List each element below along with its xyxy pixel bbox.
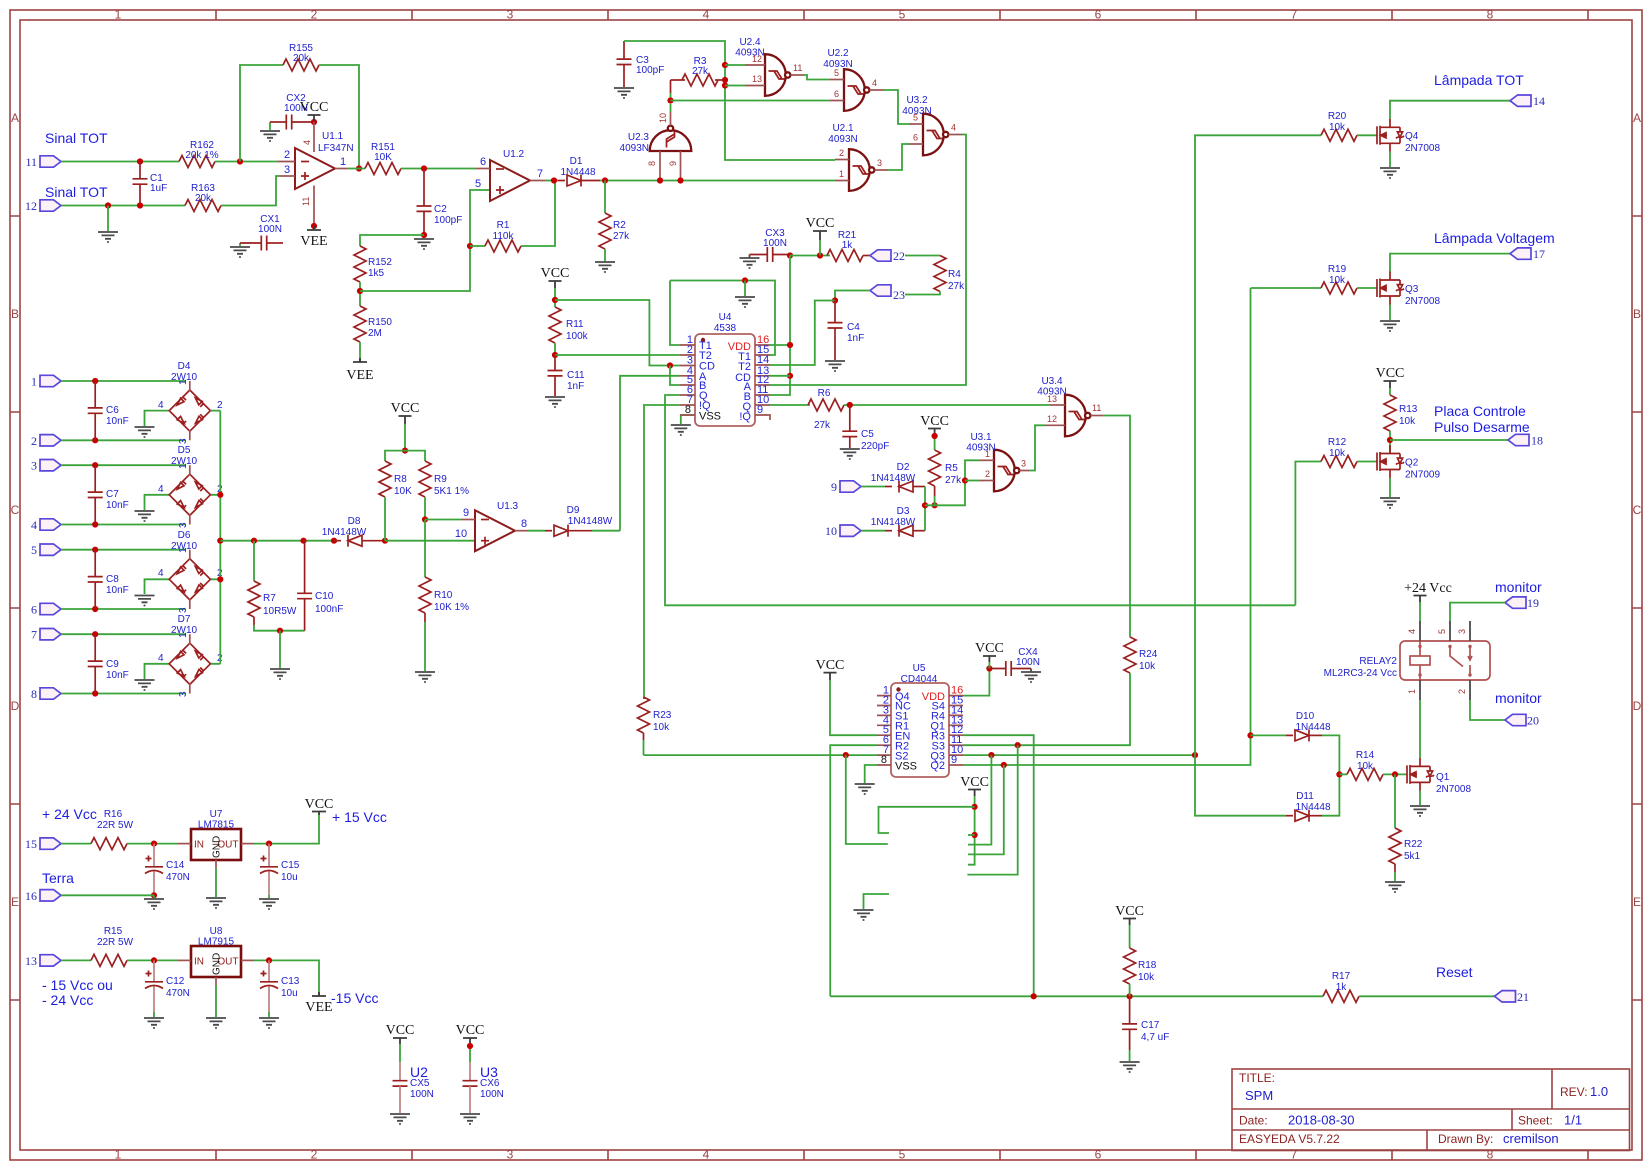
port 3 [31, 459, 61, 473]
capacitor C1 [133, 162, 168, 206]
svg-text:1N4148W: 1N4148W [568, 516, 613, 527]
svg-text:VEE: VEE [346, 368, 373, 383]
resistor R12 [1321, 437, 1357, 468]
wire port23 to C4 node [835, 291, 870, 301]
svg-text:1N4148W: 1N4148W [871, 517, 916, 528]
Q3 hook down [968, 755, 991, 845]
svg-text:4093N: 4093N [828, 134, 857, 145]
resistor R1 [470, 181, 555, 253]
svg-text:VCC: VCC [806, 216, 835, 231]
svg-text:C2: C2 [434, 204, 447, 215]
junction dot R11 top [552, 297, 558, 303]
VCC above R18 [1115, 904, 1144, 948]
resistor R152 [354, 246, 392, 282]
wire R17 to port21 [1359, 995, 1495, 997]
capacitor C11 [548, 355, 586, 396]
svg-text:5: 5 [475, 178, 481, 190]
wire pin13 tap [725, 85, 745, 87]
svg-text:18: 18 [1531, 434, 1543, 448]
svg-text:27k: 27k [692, 66, 709, 77]
svg-text:27k: 27k [945, 475, 962, 486]
svg-text:8: 8 [1487, 1148, 1494, 1162]
svg-text:3: 3 [178, 691, 189, 697]
svg-text:C11: C11 [567, 370, 585, 381]
svg-text:VCC: VCC [456, 1023, 485, 1038]
ground [98, 232, 118, 242]
svg-text:1: 1 [115, 8, 122, 22]
svg-text:U7: U7 [210, 809, 223, 820]
wire U3.1 out to U3.4 pin12 [1029, 425, 1045, 470]
wire R19 to Q3 gate [1357, 287, 1377, 289]
svg-text:C12: C12 [166, 976, 185, 987]
svg-text:U5: U5 [913, 663, 926, 674]
VCC at CX5 [386, 1023, 415, 1062]
U2.2 pin5 stub [830, 79, 844, 81]
svg-text:B: B [1633, 307, 1641, 321]
svg-text:LF347N: LF347N [318, 143, 354, 154]
svg-text:monitor: monitor [1495, 690, 1542, 706]
diode D3 1N4148W [871, 506, 925, 537]
wire port19 to relay pin5 [1450, 603, 1505, 621]
capacitor C6 [88, 381, 129, 440]
svg-text:10nF: 10nF [106, 416, 129, 427]
resistor R19 [1321, 264, 1357, 294]
svg-text:6: 6 [480, 156, 486, 168]
svg-text:C6: C6 [106, 405, 119, 416]
capacitor CX3 [750, 228, 791, 262]
U5 right pin numbers [951, 685, 963, 766]
svg-text:R16: R16 [104, 809, 123, 820]
svg-text:1nF: 1nF [567, 381, 584, 392]
U2.1 pin1 stub [835, 180, 849, 182]
svg-text:4: 4 [302, 140, 312, 145]
pin6 stub [476, 168, 490, 170]
svg-text:110k: 110k [493, 231, 515, 242]
svg-text:10u: 10u [281, 988, 298, 999]
wire port10 to D3 [861, 530, 885, 532]
U7 GND pin [215, 860, 217, 868]
port 16 [25, 889, 61, 903]
wire U8 OUT to VEE [254, 960, 319, 996]
U4 left pin numbers [685, 334, 693, 416]
svg-text:C5: C5 [861, 429, 874, 440]
svg-text:20k 1%: 20k 1% [185, 150, 218, 161]
resistor R17 [1323, 971, 1359, 1002]
resistor R8 [379, 461, 412, 541]
port 12 [25, 199, 61, 213]
resistor R9 [419, 461, 469, 520]
svg-text:C4: C4 [847, 322, 860, 333]
wire U5 R3 to reset rail [963, 735, 1034, 996]
relay pin5 [1449, 621, 1451, 641]
U7 IN pin stub [178, 843, 191, 845]
VCC for U5 EN [816, 658, 877, 735]
svg-text:11: 11 [25, 155, 37, 169]
wire U3.4 out down to R24 [1104, 416, 1130, 638]
svg-text:100N: 100N [258, 224, 282, 235]
svg-text:9: 9 [757, 404, 763, 416]
ground below C17 [1120, 1062, 1140, 1072]
svg-text:13: 13 [1047, 394, 1057, 404]
bridge D5 [158, 445, 223, 528]
wire R13 node to port18 [1390, 439, 1508, 441]
resistor R6 [808, 388, 844, 431]
svg-text:27k: 27k [814, 420, 831, 431]
svg-text:A: A [1633, 111, 1641, 125]
hook from VCC chain [879, 807, 975, 833]
svg-text:5: 5 [899, 1148, 906, 1162]
svg-text:2: 2 [311, 8, 318, 22]
U2.3 pin8 stub [659, 151, 661, 181]
VCC above R8/R9 [391, 401, 420, 451]
U5 left pin names [895, 691, 917, 773]
regulator U7 LM7815 [191, 809, 241, 860]
port 9 [831, 480, 861, 494]
feedback wire to R155 [240, 65, 283, 162]
resistor R3 [671, 56, 726, 86]
ground for CX2 [269, 122, 271, 130]
svg-text:14: 14 [1533, 94, 1545, 108]
svg-text:27k: 27k [948, 281, 965, 292]
svg-text:D5: D5 [178, 445, 191, 456]
svg-text:4,7 uF: 4,7 uF [1141, 1032, 1169, 1043]
svg-text:C14: C14 [166, 860, 185, 871]
svg-text:3: 3 [31, 459, 37, 473]
U3.2 pin5 stub [909, 123, 923, 125]
svg-text:17: 17 [1533, 247, 1545, 261]
svg-text:7: 7 [537, 168, 543, 180]
svg-text:4093N: 4093N [966, 443, 995, 454]
transistor Q1 2N7008 [1407, 758, 1471, 795]
svg-text:D9: D9 [567, 505, 580, 516]
svg-text:1k5: 1k5 [368, 268, 385, 279]
svg-text:15: 15 [25, 837, 37, 851]
U5 right pin stubs [949, 696, 963, 765]
junction dot R152/R150 [357, 288, 363, 294]
svg-text:1: 1 [115, 1148, 122, 1162]
svg-text:E: E [1633, 895, 1641, 909]
wire R23 to U5 S2 [644, 754, 878, 756]
ground below CX5 [390, 1114, 410, 1124]
svg-text:13: 13 [25, 954, 37, 968]
wire R162 to opamp pin2 [215, 161, 278, 163]
capacitor CX1 [240, 214, 283, 251]
ground CX4 [1030, 669, 1032, 673]
svg-text:8: 8 [685, 404, 691, 416]
port 6 [31, 603, 61, 617]
port 20 [1505, 714, 1539, 728]
wire D3 to common node [924, 505, 926, 530]
svg-text:11: 11 [301, 197, 311, 206]
svg-text:U2.2: U2.2 [827, 48, 849, 59]
svg-text:1: 1 [985, 449, 990, 459]
svg-text:C17: C17 [1141, 1020, 1160, 1031]
svg-text:3: 3 [178, 522, 189, 528]
svg-text:10K 1%: 10K 1% [434, 602, 469, 613]
svg-text:13: 13 [752, 74, 762, 84]
U4 right pin numbers [757, 334, 769, 416]
wire Q4 drain to port14 [1390, 101, 1510, 119]
wire U3.2 out down to U4 pin12 [770, 135, 966, 386]
svg-text:D11: D11 [1296, 791, 1314, 802]
svg-text:11: 11 [793, 63, 802, 73]
svg-text:2: 2 [311, 1148, 318, 1162]
ground below R7/C10 [279, 631, 281, 668]
svg-text:10k: 10k [1138, 972, 1155, 983]
svg-text:9: 9 [463, 507, 469, 519]
svg-text:1/1: 1/1 [1564, 1113, 1582, 1128]
wire port16 to C14 [61, 894, 154, 896]
ground on T1 net [744, 281, 746, 297]
U5 right pin names [922, 691, 945, 772]
resistor R2 [599, 181, 630, 262]
U2.4 output stub pin11 [791, 74, 805, 76]
resistor R7 [248, 541, 305, 631]
NAND U3.4 [1037, 376, 1090, 436]
capacitor C7 [88, 465, 129, 524]
U4 VSS wire and ground [681, 415, 695, 424]
svg-text:2: 2 [839, 148, 844, 158]
svg-text:4: 4 [703, 8, 710, 22]
wire T1 ground net [670, 281, 775, 356]
svg-text:+ 15 Vcc: + 15 Vcc [332, 809, 387, 825]
svg-text:1N4148W: 1N4148W [871, 473, 916, 484]
svg-text:VCC: VCC [960, 775, 989, 790]
ground below R10 [415, 672, 435, 682]
svg-text:2: 2 [1457, 689, 1467, 694]
U4 right pin names [728, 341, 752, 423]
capacitor C3 [617, 41, 665, 87]
junction dot R11/C11 [552, 352, 558, 358]
svg-text:20: 20 [1527, 714, 1539, 728]
svg-text:R1: R1 [497, 220, 510, 231]
VDD wire to CX4 [963, 669, 989, 696]
capacitor C10 [297, 541, 343, 631]
wire port15 to R16 [61, 843, 91, 845]
svg-text:1nF: 1nF [847, 333, 864, 344]
U4 left pin names [699, 340, 721, 423]
junction dot R1 left [467, 243, 473, 249]
op-amp U1.2 [490, 149, 530, 201]
svg-text:EASYEDA V5.7.22: EASYEDA V5.7.22 [1239, 1132, 1340, 1146]
svg-text:1: 1 [178, 547, 189, 553]
wire Q2row riser to R19 [1251, 287, 1322, 289]
wire D1 to U2.1 pin1 [600, 180, 835, 182]
resistor R14 [1339, 750, 1407, 780]
U3.2 pin6 stub [909, 143, 923, 145]
svg-text:8: 8 [521, 518, 527, 530]
wire U5 S3 row [1015, 742, 1021, 748]
svg-text:1: 1 [340, 156, 346, 168]
svg-text:10k: 10k [1329, 275, 1346, 286]
capacitor C8 [88, 550, 129, 609]
wire relay pin2 to port20 [1470, 700, 1505, 720]
VEE at -15 [305, 992, 332, 1015]
wire C3 top loop [624, 41, 835, 160]
wire U7 OUT to VCC [254, 813, 319, 844]
U4 left pin stubs [680, 345, 695, 415]
svg-text:470N: 470N [166, 872, 190, 883]
svg-text:2N7009: 2N7009 [1405, 470, 1440, 481]
port 19 [1505, 596, 1539, 610]
port 21 [1495, 990, 1530, 1004]
junction dot pin3 CD [667, 362, 673, 368]
svg-text:U3.1: U3.1 [970, 432, 992, 443]
svg-text:3: 3 [507, 1148, 514, 1162]
svg-text:LM7915: LM7915 [198, 937, 235, 948]
svg-text:100pF: 100pF [434, 215, 462, 226]
ground CX1 [239, 243, 241, 246]
svg-text:R2: R2 [613, 220, 626, 231]
capacitor C4 [828, 301, 865, 361]
wire common node to U3.1 pins [925, 460, 980, 505]
svg-text:!Q: !Q [739, 411, 751, 423]
VCC at CX6 [456, 1023, 485, 1062]
U2.1 pin2 stub [835, 159, 849, 161]
resistor R162 [179, 140, 219, 168]
resistor R20 [1321, 111, 1357, 141]
wire R155 to output node [319, 65, 359, 169]
svg-text:1k: 1k [842, 240, 854, 251]
S3 hook down [967, 745, 1017, 874]
svg-text:4: 4 [1407, 629, 1417, 634]
U3.4 pin13 stub [1050, 404, 1065, 406]
svg-text:4: 4 [158, 653, 164, 664]
svg-text:D6: D6 [178, 530, 191, 541]
svg-text:R20: R20 [1328, 111, 1347, 122]
output stub pin1 [335, 168, 347, 170]
NAND U2.1 [828, 123, 874, 191]
resistor R24 [1124, 637, 1158, 673]
U4 IC body [695, 312, 755, 426]
bridge D7 wires [61, 634, 220, 693]
svg-text:Pulso Desarme: Pulso Desarme [1434, 419, 1530, 435]
wire U4 pin7 !Q down to R23 [644, 405, 680, 697]
wire CD node to pin5 B [670, 366, 680, 386]
svg-text:6: 6 [31, 603, 37, 617]
resistor R155 [283, 43, 319, 71]
svg-text:Q1: Q1 [1436, 772, 1450, 783]
svg-text:6: 6 [1095, 8, 1102, 22]
U2.1 output stub pin3 [875, 169, 889, 171]
op-amp U1.1 LF347N [295, 131, 354, 189]
diode D10 1N4448 [1251, 711, 1340, 774]
relay pin2 [1469, 680, 1471, 700]
svg-text:C7: C7 [106, 489, 119, 500]
ground D7 [135, 680, 155, 690]
svg-text:1uF: 1uF [150, 183, 167, 194]
svg-text:REV:: REV: [1560, 1085, 1588, 1099]
VCC above R5 [920, 414, 949, 450]
svg-text:U2.4: U2.4 [739, 37, 761, 48]
pin 4 stub U1.1 [313, 122, 315, 152]
port 13 [25, 954, 61, 968]
svg-text:VCC: VCC [541, 266, 570, 281]
svg-text:R14: R14 [1356, 750, 1375, 761]
ground below C11 [545, 397, 565, 407]
svg-text:Q4: Q4 [1405, 131, 1419, 142]
bridge D7 [158, 614, 223, 697]
svg-text:10k: 10k [653, 722, 670, 733]
NAND U2.3 (vertical) [620, 113, 692, 154]
op-amp U1.3 [475, 501, 519, 551]
svg-text:1N4448: 1N4448 [1295, 722, 1330, 733]
svg-text:R17: R17 [1332, 971, 1351, 982]
ground below C14 [153, 895, 155, 898]
wire U4 pin6 Q to 605 rail [665, 395, 1295, 605]
wire R11 top to U4 pin1 riser [555, 300, 680, 366]
svg-text:9: 9 [668, 161, 678, 166]
U5 left pin stubs [877, 696, 891, 765]
wire R151 to U1.2 pin6 [401, 168, 476, 170]
svg-text:12: 12 [25, 199, 37, 213]
resistor R15 [91, 926, 134, 966]
svg-text:Date:: Date: [1239, 1114, 1268, 1128]
S2 hook down [846, 755, 888, 844]
svg-text:C15: C15 [281, 860, 300, 871]
svg-text:R6: R6 [818, 388, 831, 399]
svg-text:U4: U4 [719, 312, 732, 323]
resistor R23 [638, 697, 672, 755]
svg-text:10K: 10K [374, 152, 392, 163]
U8 OUT pin stub [241, 959, 254, 961]
wire VCC node to R8 and R9 [385, 451, 425, 461]
svg-text:R24: R24 [1139, 649, 1158, 660]
wire D9 to U4 pin4 riser [592, 530, 620, 532]
wire U5 Q3 row to R20 net [963, 754, 1195, 756]
wire R9/R10 node to U1.3 pin9 [425, 519, 461, 521]
svg-text:20k: 20k [195, 193, 212, 204]
svg-text:100N: 100N [410, 1089, 434, 1100]
svg-text:Lâmpada TOT: Lâmpada TOT [1434, 72, 1524, 88]
svg-text:8: 8 [1487, 8, 1494, 22]
port 23 [870, 285, 905, 302]
svg-text:Q2: Q2 [930, 760, 945, 772]
diode D9 1N4148W [545, 505, 613, 537]
svg-text:12: 12 [752, 54, 762, 64]
svg-text:+ 24 Vcc: + 24 Vcc [42, 806, 97, 822]
wire U5 R2 to reset rail [830, 745, 877, 996]
bridge D5 wires [61, 465, 220, 524]
svg-text:8: 8 [881, 754, 887, 766]
VCC at R21 [806, 216, 835, 256]
svg-text:10nF: 10nF [106, 500, 129, 511]
U3.1 pin2 stub [980, 480, 994, 482]
svg-text:22R 5W: 22R 5W [97, 937, 134, 948]
svg-text:C8: C8 [106, 574, 119, 585]
U3.2 output stub pin4 [949, 134, 963, 136]
bridge output bus [219, 411, 221, 664]
wire R16 to U7 IN [127, 843, 178, 845]
svg-text:1: 1 [178, 632, 189, 638]
svg-text:5: 5 [1437, 629, 1447, 634]
svg-text:7: 7 [31, 628, 37, 642]
wire port12 to R163 [61, 205, 185, 207]
svg-text:10k: 10k [1139, 661, 1156, 672]
wire R11 bottom to U4 pin2 [555, 354, 680, 356]
svg-text:3: 3 [1457, 629, 1467, 634]
svg-text:SPM: SPM [1245, 1088, 1273, 1103]
capacitor C14 (electrolytic) [145, 844, 190, 896]
relay RELAY2 ML2RC3-24 Vcc [1324, 641, 1490, 680]
svg-text:1.0: 1.0 [1590, 1084, 1608, 1099]
svg-text:GND: GND [212, 953, 223, 975]
svg-text:U8: U8 [210, 926, 223, 937]
junction dot below C2 [421, 232, 427, 238]
junction dots [105, 202, 111, 208]
wire D9 to U4 pin4 A [620, 376, 680, 531]
bridge D6 [158, 530, 223, 613]
